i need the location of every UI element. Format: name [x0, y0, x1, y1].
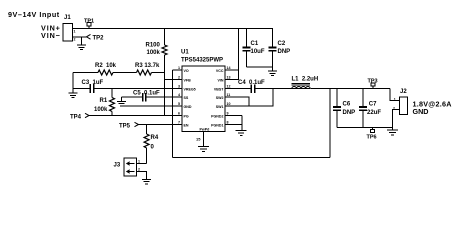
- capacitor C2: [269, 29, 291, 68]
- wire PG: [89, 115, 182, 117]
- capacitor C4: [225, 80, 265, 93]
- wire VREG5: [94, 88, 182, 90]
- svg-text:2: 2: [178, 76, 180, 80]
- svg-text:VBST: VBST: [214, 87, 224, 91]
- svg-text:GND: GND: [184, 105, 192, 109]
- svg-text:100k: 100k: [94, 107, 108, 113]
- wire VO pin1: [173, 69, 183, 71]
- svg-text:10: 10: [227, 102, 231, 106]
- wire J3 pin1: [137, 163, 147, 165]
- svg-text:PG: PG: [184, 114, 189, 118]
- svg-text:TP4: TP4: [70, 115, 82, 121]
- svg-text:R4: R4: [151, 135, 159, 141]
- svg-text:3: 3: [178, 85, 180, 89]
- wire feedback tap: [329, 89, 331, 158]
- wire SS pin4: [146, 96, 182, 98]
- ground at C5: [117, 97, 126, 106]
- svg-text:5: 5: [178, 102, 180, 106]
- svg-text:9: 9: [227, 112, 229, 116]
- svg-text:14: 14: [227, 66, 231, 70]
- svg-text:TP2: TP2: [93, 36, 105, 42]
- svg-text:J1: J1: [64, 15, 71, 21]
- test point TP5: [119, 122, 139, 129]
- capacitor C7: [359, 89, 381, 128]
- svg-text:VIN−: VIN−: [41, 31, 61, 40]
- svg-text:VREG5: VREG5: [184, 87, 196, 91]
- wire VBST to SW node: [255, 88, 293, 90]
- inductor L1: [292, 77, 319, 89]
- svg-text:R3 13.7k: R3 13.7k: [135, 63, 160, 69]
- resistor R3: [135, 63, 160, 75]
- svg-text:SW1: SW1: [216, 105, 224, 109]
- svg-text:1: 1: [178, 66, 180, 70]
- wire VIN pin13: [225, 29, 239, 80]
- svg-text:PGND1: PGND1: [211, 123, 223, 127]
- wire VO feedback vertical: [172, 70, 174, 158]
- svg-text:PGND2: PGND2: [211, 114, 223, 118]
- svg-text:TP1: TP1: [84, 18, 94, 24]
- ground at J3: [142, 179, 151, 184]
- ground at pin 15: [198, 147, 209, 152]
- wire divider R2 R3: [73, 72, 165, 74]
- wire SW1 pin10: [225, 89, 273, 107]
- wire VFB pin2: [165, 73, 183, 80]
- label 9V-14V Input: [8, 10, 60, 19]
- svg-text:2: 2: [74, 38, 76, 42]
- svg-text:R2 10k: R2 10k: [95, 63, 117, 69]
- test point TP2: [87, 34, 105, 41]
- resistor R2: [95, 63, 117, 75]
- wire left ground branch: [72, 73, 74, 93]
- wire J3 pin2: [137, 172, 147, 180]
- svg-text:7: 7: [178, 121, 180, 125]
- svg-text:SS: SS: [184, 96, 189, 100]
- svg-text:TP5: TP5: [119, 123, 131, 129]
- svg-text:VCC: VCC: [216, 69, 224, 73]
- svg-text:TPS54325PWP: TPS54325PWP: [181, 58, 223, 64]
- capacitor C6: [333, 89, 355, 128]
- svg-text:8: 8: [227, 121, 229, 125]
- test point TP3: [368, 79, 378, 89]
- svg-text:22uF: 22uF: [367, 110, 381, 116]
- svg-text:100k: 100k: [147, 50, 161, 56]
- wire PGND pins: [225, 116, 242, 131]
- svg-text:15: 15: [196, 137, 201, 142]
- svg-text:12: 12: [227, 85, 231, 89]
- capacitor C5: [122, 90, 161, 101]
- wire VIN rail: [73, 28, 274, 30]
- ground at PGND: [236, 131, 247, 136]
- wire J2 pin2: [392, 110, 399, 128]
- wire GND pin5: [120, 105, 182, 107]
- svg-text:C1: C1: [251, 41, 259, 47]
- svg-text:C2: C2: [278, 41, 286, 47]
- svg-text:11: 11: [227, 93, 231, 97]
- svg-text:VO: VO: [184, 69, 189, 73]
- svg-text:TP3: TP3: [368, 79, 378, 85]
- svg-text:1: 1: [74, 30, 76, 34]
- svg-text:J3: J3: [114, 163, 121, 169]
- resistor R4: [144, 125, 159, 164]
- capacitor C1: [243, 29, 265, 68]
- pin 15 PwPd: [196, 132, 204, 147]
- svg-text:6: 6: [178, 112, 180, 116]
- capacitor C3: [73, 80, 104, 93]
- resistor R1: [94, 89, 115, 116]
- test point TP4: [70, 113, 89, 120]
- svg-text:L1 2.2uH: L1 2.2uH: [292, 77, 319, 83]
- svg-text:EN: EN: [184, 123, 189, 127]
- svg-text:VFB: VFB: [184, 78, 192, 82]
- wire output ground rail: [337, 127, 392, 129]
- svg-text:C7: C7: [369, 102, 377, 108]
- label output 1.8V 2.6A: [413, 99, 452, 116]
- svg-text:J2: J2: [400, 89, 407, 95]
- svg-text:VIN: VIN: [218, 78, 224, 82]
- connector J3: [114, 158, 141, 176]
- ground at input caps: [268, 67, 277, 76]
- connector J2: [393, 89, 408, 115]
- wire SW2 pin11: [225, 97, 249, 106]
- svg-text:TP6: TP6: [367, 135, 377, 141]
- resistor R100: [146, 29, 168, 116]
- svg-text:R100: R100: [146, 42, 161, 48]
- wire J1 pin2: [73, 36, 87, 38]
- ground at R2 C3: [69, 93, 78, 98]
- svg-text:10uF: 10uF: [251, 49, 265, 55]
- wire output rail: [311, 88, 391, 90]
- test point TP6: [367, 128, 377, 141]
- svg-text:U1: U1: [181, 50, 189, 56]
- svg-text:C6: C6: [343, 102, 351, 108]
- svg-text:PwPd: PwPd: [200, 128, 210, 132]
- svg-text:9V–14V Input: 9V–14V Input: [8, 10, 60, 19]
- op-amp U1 TPS54325PWP: [178, 50, 231, 132]
- wire J2 pin1: [390, 89, 400, 101]
- wire input caps bottom: [247, 66, 273, 68]
- svg-text:SW2: SW2: [216, 96, 224, 100]
- test point TP1: [84, 18, 94, 28]
- svg-text:4: 4: [178, 93, 180, 97]
- wire EN: [139, 124, 183, 126]
- svg-text:GND: GND: [413, 107, 429, 116]
- ground at J1: [77, 37, 86, 50]
- wire feedback bottom: [173, 157, 331, 159]
- svg-text:13: 13: [227, 76, 231, 80]
- svg-text:1: 1: [394, 97, 396, 101]
- svg-text:C3 1uF: C3 1uF: [82, 80, 104, 86]
- svg-text:DNP: DNP: [278, 49, 291, 55]
- svg-text:R1: R1: [100, 98, 108, 104]
- connector J1: [41, 15, 76, 42]
- svg-text:DNP: DNP: [343, 110, 356, 116]
- wire VCC pin14: [225, 69, 239, 71]
- ground at J2: [387, 128, 398, 135]
